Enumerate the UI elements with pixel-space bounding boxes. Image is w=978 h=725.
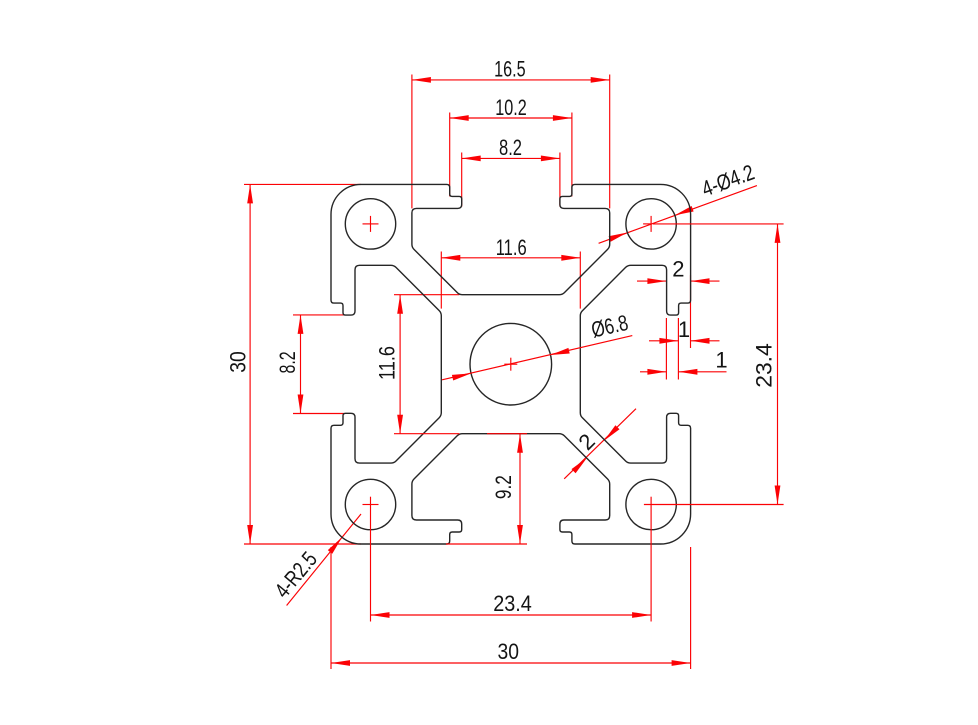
svg-text:30: 30 — [226, 351, 251, 373]
svg-text:8.2: 8.2 — [499, 135, 522, 160]
dimension 1 lower — [640, 371, 666, 373]
svg-text:4-Ø4.2: 4-Ø4.2 — [698, 159, 757, 201]
svg-text:1: 1 — [678, 317, 690, 342]
extension line 16.5 left — [411, 75, 413, 209]
extension line 30 top — [244, 183, 361, 185]
extension line 10.2 right — [571, 113, 573, 197]
svg-text:11.6: 11.6 — [375, 346, 400, 380]
extension line lip inner wall — [665, 318, 667, 380]
centre bore — [470, 323, 552, 405]
dimension 8.2 top — [462, 157, 560, 159]
svg-text:23.4: 23.4 — [493, 591, 532, 616]
corner hole bottom-left — [345, 479, 395, 529]
extension line 30 bottom right — [690, 547, 692, 669]
svg-text:1: 1 — [715, 348, 727, 373]
dimension 16.5 — [412, 79, 610, 81]
dimension 1 upper — [649, 340, 678, 342]
extension line 11.6 side top — [394, 294, 459, 296]
dimension 23.4 bottom — [371, 614, 652, 616]
dimension 30 bottom — [331, 662, 691, 664]
leader 4-R2.5 — [287, 514, 361, 606]
extension line 23.4 right top — [653, 223, 784, 225]
svg-text:16.5: 16.5 — [494, 57, 526, 82]
svg-text:9.2: 9.2 — [491, 475, 516, 499]
svg-text:2: 2 — [672, 257, 684, 282]
extension line 11.6 side bottom — [394, 433, 459, 435]
extension line 8.2 side bottom — [293, 413, 345, 415]
centre mark top-right hole — [643, 223, 651, 225]
centre mark top-left hole — [363, 223, 379, 225]
extension line 10.2 left — [449, 113, 451, 197]
dimension 11.6 left — [399, 295, 401, 434]
extension line 30 bottom left — [330, 547, 332, 669]
dimension 8.2 left — [300, 315, 302, 414]
extension line 8.2 right — [559, 153, 561, 207]
centre mark bore — [504, 363, 517, 365]
extension line lip step edge — [677, 318, 679, 380]
extension line 16.5 right — [609, 75, 611, 209]
dimension 23.4 right — [777, 224, 779, 505]
svg-text:11.6: 11.6 — [496, 235, 527, 260]
extension line 8.2 left — [461, 153, 463, 207]
extension line 23.4 bottom right — [650, 497, 652, 622]
dimension 11.6 top — [441, 257, 580, 259]
svg-text:30: 30 — [498, 639, 520, 664]
extension line 30 bottom — [244, 543, 361, 545]
leader 4-dia4.2 — [599, 186, 757, 244]
extension line right face — [690, 275, 692, 348]
svg-text:23.4: 23.4 — [751, 343, 776, 388]
svg-text:8.2: 8.2 — [275, 351, 300, 373]
corner hole top-left — [345, 199, 395, 249]
leader dia6.8 — [442, 336, 632, 380]
extension line 11.6 right — [579, 252, 581, 309]
dimension 9.2 — [519, 434, 521, 544]
extension line 23.4 bottom left — [370, 497, 372, 622]
corner hole bottom-right — [626, 479, 676, 529]
dimension 10.2 — [450, 117, 572, 119]
extension line 8.2 side top — [293, 314, 345, 316]
extension line 9.2 bottom — [446, 543, 527, 545]
dimension 30 left — [249, 184, 251, 544]
corner hole top-right — [626, 199, 676, 249]
extension line 23.4 right bottom — [644, 504, 784, 506]
profile outline — [331, 184, 691, 544]
extension line 11.6 left — [440, 252, 442, 309]
dimension 2 wall — [637, 280, 666, 282]
dimension 2 web — [564, 409, 636, 479]
svg-text:10.2: 10.2 — [495, 95, 527, 120]
extension line 9.2 top — [487, 433, 527, 435]
svg-text:2: 2 — [574, 429, 600, 455]
centre mark bottom-left hole — [363, 504, 379, 506]
